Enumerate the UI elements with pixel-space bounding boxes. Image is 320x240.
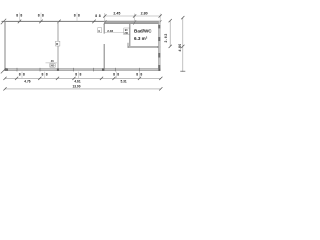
ext line x19.5 bbox=[19, 13, 21, 22]
svg-text:8: 8 bbox=[78, 14, 80, 18]
row2 tick x5 bbox=[3, 77, 6, 80]
svg-text:4.76: 4.76 bbox=[24, 79, 30, 83]
svg-text:8: 8 bbox=[74, 14, 76, 18]
door label box left of wall x104 bbox=[98, 28, 102, 33]
row2 tick x57.5 bbox=[56, 77, 59, 80]
row2 pair x116.4 bbox=[115, 72, 117, 79]
dim 2.36 line bbox=[104, 32, 124, 34]
window3 edge ticks bbox=[115, 68, 117, 72]
dim2 bottom tick bbox=[180, 70, 185, 72]
svg-text:6.3 m²: 6.3 m² bbox=[134, 36, 148, 41]
ext line x77 bbox=[76, 13, 78, 22]
svg-text:8: 8 bbox=[80, 73, 82, 77]
bathroom left wall x129.7 bbox=[129, 24, 131, 47]
row2 pair x44.8 bbox=[44, 72, 46, 79]
top wall band right section bbox=[104, 21, 160, 24]
row2 tick x139.5 bbox=[138, 77, 141, 80]
interior wall x58 bbox=[57, 21, 59, 68]
svg-text:8: 8 bbox=[16, 14, 18, 18]
right exterior wall band bbox=[158, 21, 160, 71]
bottom wall left arrow bbox=[1, 68, 6, 73]
svg-text:8: 8 bbox=[42, 14, 44, 18]
row2 pair x139.5 bbox=[139, 72, 141, 79]
svg-text:8: 8 bbox=[99, 14, 101, 18]
wall tick x160 bbox=[159, 20, 162, 24]
boxed label 265 bbox=[50, 64, 55, 68]
dim2 top tick bbox=[181, 16, 184, 19]
row3 tick right bbox=[159, 87, 162, 90]
svg-text:8: 8 bbox=[75, 73, 77, 77]
svg-text:8: 8 bbox=[42, 73, 44, 77]
bottom dim row3 line bbox=[5, 88, 161, 90]
right vertical dim line 2 bbox=[182, 18, 184, 72]
svg-text:2.62: 2.62 bbox=[164, 33, 168, 42]
bottom exterior wall band bbox=[5, 68, 161, 70]
right vertical dim line 1 bbox=[169, 21, 171, 47]
svg-text:13.00: 13.00 bbox=[73, 84, 81, 88]
row2 tick x74 bbox=[72, 77, 75, 80]
row3 tick left bbox=[3, 87, 6, 90]
ext verticals top right dim bbox=[104, 13, 106, 21]
row2 pair x22 bbox=[21, 72, 23, 79]
svg-text:2.36: 2.36 bbox=[107, 29, 113, 33]
bottom dim row2 line bbox=[5, 77, 161, 79]
svg-text:8: 8 bbox=[95, 14, 97, 18]
svg-text:8: 8 bbox=[20, 14, 22, 18]
window 3 glazing bbox=[116, 69, 140, 70]
svg-text:Bad/WC: Bad/WC bbox=[134, 28, 152, 33]
window1 edge ticks bbox=[16, 68, 18, 72]
tick top x41 bbox=[39, 20, 42, 24]
svg-text:R: R bbox=[56, 42, 58, 46]
wall tick x105 bbox=[104, 20, 107, 24]
svg-text:8: 8 bbox=[46, 73, 48, 77]
svg-text:8: 8 bbox=[23, 73, 25, 77]
top edge line left section bbox=[2, 20, 105, 22]
row2 tick x101.5 bbox=[100, 77, 103, 80]
svg-text:265: 265 bbox=[50, 65, 55, 68]
sill line bbox=[46, 62, 58, 64]
tick top x94 bbox=[92, 20, 95, 24]
label box on wall x58 bbox=[56, 41, 60, 46]
window 2 glazing bbox=[74, 69, 94, 70]
tick top x19.5 bbox=[18, 20, 21, 24]
svg-text:8: 8 bbox=[136, 73, 138, 77]
bottom wall dark corner right bbox=[158, 68, 160, 70]
svg-text:8: 8 bbox=[19, 73, 21, 77]
wall end cap tick bbox=[127, 43, 129, 48]
interior wall horizontal y46.2-47.7 bbox=[128, 46, 161, 48]
wall tick x134.7 bbox=[133, 20, 136, 24]
svg-text:8: 8 bbox=[117, 73, 119, 77]
svg-text:4.80: 4.80 bbox=[178, 43, 182, 51]
tick dim x134.6 bbox=[133, 14, 136, 17]
interior wall x104 lower bbox=[103, 44, 105, 69]
svg-text:8: 8 bbox=[38, 14, 40, 18]
right wall hatch segments bbox=[158, 25, 160, 28]
dim1 top tick bbox=[169, 19, 172, 22]
window 1 glazing bbox=[17, 69, 40, 70]
tick top x59 bbox=[57, 20, 60, 24]
wall58 junction dark bbox=[57, 68, 59, 70]
svg-text:5.31: 5.31 bbox=[121, 79, 127, 83]
row2 tick x16.6 bbox=[15, 77, 18, 80]
svg-text:8: 8 bbox=[113, 73, 115, 77]
row2 tick x114 bbox=[112, 77, 115, 80]
tick dim x160.2 bbox=[159, 14, 162, 17]
door label box 90/201 bbox=[124, 28, 130, 35]
dim2 mid tick bbox=[181, 45, 184, 48]
left end arrow tick bbox=[1, 19, 6, 24]
svg-text:4.61: 4.61 bbox=[74, 79, 80, 83]
tick dim x104.8 bbox=[103, 14, 106, 17]
wall104 junction dark bbox=[102, 68, 104, 70]
top right dimension line bbox=[105, 15, 161, 17]
left exterior wall bbox=[4, 21, 6, 71]
svg-text:2.45: 2.45 bbox=[113, 11, 120, 15]
ext line x41 bbox=[40, 13, 42, 22]
interior wall x104 upper bbox=[103, 24, 105, 34]
dim1 bottom tick bbox=[169, 45, 172, 48]
row2 pair x78.6 bbox=[78, 72, 80, 79]
row2 tick x160.8 bbox=[159, 77, 162, 80]
bottom wall dark corner left bbox=[5, 68, 9, 70]
svg-text:8: 8 bbox=[140, 73, 142, 77]
row2 tick x39.8 bbox=[38, 77, 41, 80]
window2 edge ticks bbox=[73, 68, 75, 72]
svg-text:201: 201 bbox=[124, 32, 129, 35]
svg-text:2.80: 2.80 bbox=[141, 11, 148, 15]
